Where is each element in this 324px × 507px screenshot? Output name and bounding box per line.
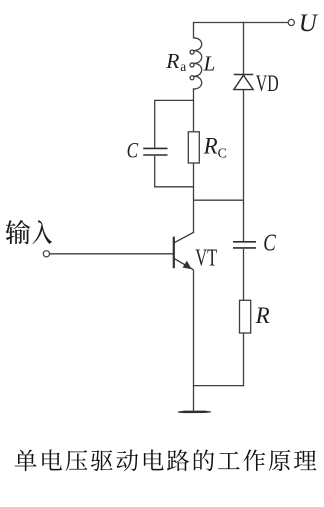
wire left branch upper — [154, 100, 156, 148]
capacitor C2 plates — [233, 241, 256, 243]
svg-text:R: R — [203, 134, 218, 159]
svg-text:VD: VD — [256, 71, 279, 97]
wire base input — [50, 253, 173, 255]
transistor VT — [174, 232, 194, 270]
wire parallel section bottom — [154, 186, 194, 188]
resistor RC — [188, 132, 199, 163]
resistor R — [240, 300, 251, 333]
terminal U circle — [288, 19, 294, 25]
svg-text:VT: VT — [195, 244, 217, 271]
wire R to bottom rail — [243, 333, 245, 386]
svg-text:C: C — [263, 231, 276, 257]
inductor L — [190, 38, 202, 89]
svg-text:U: U — [299, 10, 319, 37]
diode VD — [234, 74, 253, 76]
svg-text:R: R — [255, 303, 270, 328]
wire C2 to R — [243, 249, 245, 301]
svg-text:L: L — [203, 52, 216, 76]
wire RC to collector — [193, 163, 195, 232]
wire collector branch upper — [193, 22, 195, 39]
svg-text:R: R — [165, 49, 179, 73]
wire node to right branch — [194, 199, 244, 201]
svg-text:a: a — [180, 59, 186, 74]
input terminal circle — [43, 251, 49, 257]
caption 单电压驱动电路的工作原理 — [15, 449, 317, 471]
wire right branch upper — [243, 22, 245, 75]
wire parallel section top — [155, 99, 194, 101]
wire left branch lower — [154, 156, 156, 188]
capacitor C1 plates — [143, 147, 167, 149]
wire bottom rail — [193, 385, 244, 387]
wire diode to C2 — [243, 90, 245, 242]
svg-text:C: C — [218, 147, 227, 162]
svg-text:C: C — [127, 137, 139, 162]
label input 输入 — [5, 220, 52, 244]
wire inductor to RC — [193, 89, 195, 131]
wire top rail — [194, 22, 289, 24]
ground — [178, 411, 211, 414]
wire emitter down — [193, 270, 195, 411]
